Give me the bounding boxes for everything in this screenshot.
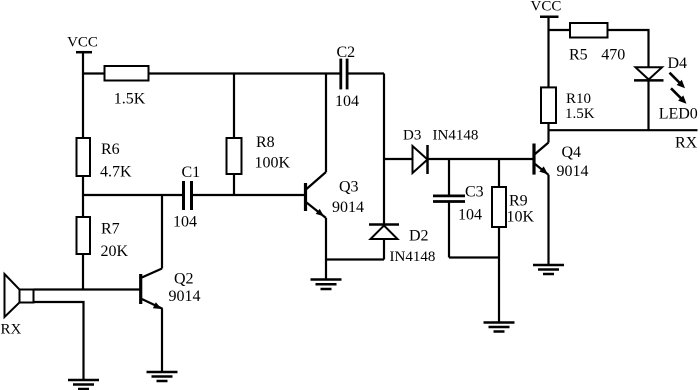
svg-text:R10: R10 xyxy=(566,91,591,107)
wire VCC2 to R5 xyxy=(549,29,571,31)
resistor 1.5K (top left) xyxy=(105,66,149,81)
svg-text:D4: D4 xyxy=(668,55,688,72)
svg-text:9014: 9014 xyxy=(557,163,589,180)
wire mic bottom to ground xyxy=(34,302,84,380)
resistor R8 xyxy=(227,138,242,174)
wire Q3 collector vertical xyxy=(325,74,327,173)
LED D4 xyxy=(636,67,663,79)
svg-text:20K: 20K xyxy=(101,243,129,260)
wire second rail y=159 xyxy=(428,158,534,160)
svg-text:R8: R8 xyxy=(256,134,275,151)
svg-text:C2: C2 xyxy=(337,44,356,61)
wire R9 top branch xyxy=(498,159,500,187)
wire to D3 xyxy=(384,158,413,160)
svg-text:VCC: VCC xyxy=(531,0,562,15)
svg-text:104: 104 xyxy=(173,214,197,231)
transistor Q4 xyxy=(532,144,535,175)
svg-text:9014: 9014 xyxy=(332,199,364,216)
svg-text:4.7K: 4.7K xyxy=(100,164,132,181)
svg-text:104: 104 xyxy=(458,207,482,224)
VCC power symbol left xyxy=(76,51,92,54)
svg-text:1.5K: 1.5K xyxy=(565,106,595,122)
ground (R9) xyxy=(484,321,515,324)
svg-text:C3: C3 xyxy=(465,184,484,201)
svg-text:9014: 9014 xyxy=(169,288,201,305)
capacitor C2 xyxy=(339,59,342,90)
wire Q4 emitter to ground xyxy=(547,175,549,265)
wire C3 bottom branch xyxy=(448,202,450,258)
resistor R5 xyxy=(570,23,608,38)
ground (speaker) xyxy=(68,379,99,382)
ground (Q4) xyxy=(533,264,564,267)
wire output rail y=129.5 xyxy=(549,129,698,131)
ground (Q2) xyxy=(147,371,178,374)
svg-text:IN4148: IN4148 xyxy=(390,249,436,265)
wire D4 cathode down xyxy=(647,80,649,130)
wire top rail to C2 xyxy=(149,72,340,74)
svg-text:RX: RX xyxy=(1,322,22,338)
resistor R9 xyxy=(492,187,506,227)
wire R6 to R7 xyxy=(82,176,84,217)
svg-text:R6: R6 xyxy=(101,141,120,158)
wire Q3 emitter to D2 xyxy=(326,258,384,260)
LED arrow 2 xyxy=(671,88,681,98)
speaker RX xyxy=(5,274,20,317)
wire R10 bottom xyxy=(547,123,549,130)
wire mic top to Q2 base xyxy=(34,288,140,290)
wire R8 top branch xyxy=(233,74,235,139)
svg-text:D3: D3 xyxy=(403,128,421,144)
resistor R7 xyxy=(77,217,91,254)
svg-text:R7: R7 xyxy=(101,221,120,238)
capacitor C3 xyxy=(433,195,465,198)
wire VCC2 down to R10 xyxy=(547,17,549,88)
wire R9 bottom to ground xyxy=(498,227,500,323)
wire D2 anode down xyxy=(383,239,385,260)
wire R7 to mic node xyxy=(82,254,84,290)
diode D3 xyxy=(413,146,428,173)
wire C3 top branch xyxy=(448,159,450,196)
wire top rail y=73 xyxy=(83,72,105,74)
wire R5 to D4 corner xyxy=(608,30,649,67)
VCC power symbol right xyxy=(540,16,559,19)
transistor Q3 xyxy=(304,183,307,211)
svg-text:IN4148: IN4148 xyxy=(433,128,479,144)
svg-text:470: 470 xyxy=(601,46,625,63)
svg-text:LED0: LED0 xyxy=(659,105,698,122)
svg-text:RX: RX xyxy=(675,135,698,152)
wire C2/D2 vertical xyxy=(383,74,385,226)
svg-text:VCC: VCC xyxy=(67,35,98,51)
wire C2 to corner xyxy=(348,72,384,74)
transistor Q2 xyxy=(139,274,142,304)
wire Q3 emitter vertical xyxy=(325,218,327,260)
svg-text:1.5K: 1.5K xyxy=(114,91,146,108)
resistor R10 xyxy=(541,87,556,123)
capacitor C1 xyxy=(182,181,185,210)
svg-text:Q2: Q2 xyxy=(174,271,194,288)
LED arrow 1 xyxy=(670,73,680,83)
svg-text:Q4: Q4 xyxy=(562,144,582,161)
wire middle rail y=195 right xyxy=(193,194,305,196)
wire Q4 collector up xyxy=(547,130,549,142)
svg-text:10K: 10K xyxy=(507,209,535,226)
svg-text:R9: R9 xyxy=(509,193,528,210)
diode D2 xyxy=(369,223,399,226)
wire Q2 emitter to ground xyxy=(161,309,163,373)
wire Q2 collector vertical xyxy=(161,195,163,269)
svg-text:Q3: Q3 xyxy=(339,179,359,196)
wire VCC1 to R6 xyxy=(82,52,84,138)
svg-text:R5: R5 xyxy=(569,46,588,63)
wire R8 bottom branch xyxy=(233,174,235,195)
svg-text:D2: D2 xyxy=(409,228,429,245)
svg-text:C1: C1 xyxy=(182,164,201,181)
resistor R6 xyxy=(77,138,91,176)
wire C3 to R9 xyxy=(449,256,499,258)
svg-text:100K: 100K xyxy=(255,155,291,172)
wire middle rail y=195 left xyxy=(83,194,183,196)
ground (Q3) xyxy=(325,260,327,280)
svg-text:104: 104 xyxy=(335,93,359,110)
